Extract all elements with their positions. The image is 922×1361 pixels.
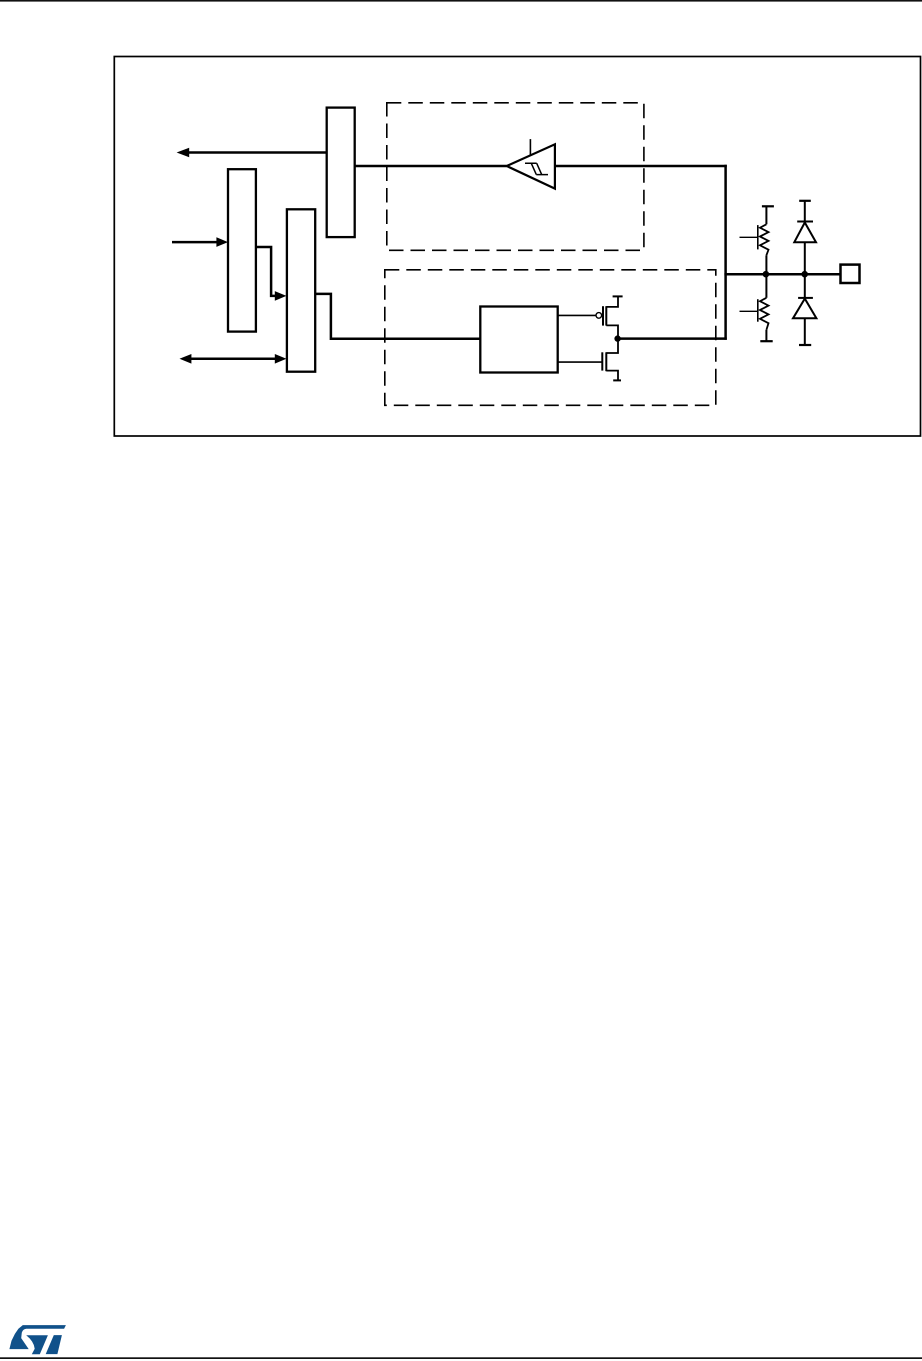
diode D1 (protection to VDD) xyxy=(794,201,816,274)
switch gate: pull-down on/off xyxy=(740,299,758,322)
arrow: read (to bus, pointing left) xyxy=(177,148,327,158)
dashed box: output driver xyxy=(385,270,716,406)
footer rule xyxy=(0,1357,922,1359)
node: protection-diode junction xyxy=(801,271,808,278)
ground rail bar VSS (N-MOS source) xyxy=(613,379,621,381)
block: output control xyxy=(480,307,557,373)
resistor R-PD (weak pull-down) xyxy=(760,274,769,341)
wire: schmitt trigger output to input data register xyxy=(355,165,507,168)
I/O pin pad xyxy=(841,265,860,283)
dashed box: input driver xyxy=(387,103,644,251)
wire: output data register to read/write block (stepped, arrowed) xyxy=(256,247,287,301)
wire: schmitt trigger input from pad node xyxy=(555,165,727,168)
transistor Q2 N-MOS xyxy=(558,339,618,381)
power rail bar VDD (top protection diode) xyxy=(799,200,811,202)
wire: read/write block to output control (stepped) xyxy=(315,294,480,339)
block: read/write bus interface xyxy=(287,209,315,371)
header rule (page crop, top) xyxy=(0,0,922,2)
transistor Q1 P-MOS xyxy=(558,296,618,338)
resistor R-PU (weak pull-up) xyxy=(760,206,769,274)
block: input data register xyxy=(327,108,355,238)
wire: mosfet drain node to pad vertical xyxy=(617,337,727,340)
switch gate: pull-up on/off xyxy=(740,225,758,249)
node: push-pull output (drain junction) xyxy=(614,335,620,341)
ground rail bar VSS (bottom protection diode) xyxy=(799,344,811,346)
diode D2 (protection to VSS) xyxy=(793,274,816,345)
ground rail bar VSS (pull-down) xyxy=(760,340,772,342)
ST logo xyxy=(9,1325,66,1354)
arrow: read/write (double headed) xyxy=(180,354,287,364)
power rail bar VDD (pull-up) xyxy=(762,205,774,207)
schmitt trigger U1 (TTL/CMOS input buffer) xyxy=(507,139,555,189)
arrow: write (into output data register) xyxy=(172,237,228,247)
figure frame xyxy=(114,57,920,437)
node: pull-resistor junction xyxy=(763,271,770,278)
block: output data register xyxy=(228,169,256,331)
wire: pad node to I/O pin xyxy=(724,273,840,276)
wire: vertical connector at pad node xyxy=(724,165,727,340)
power rail bar VDD (P-MOS source) xyxy=(613,295,623,297)
